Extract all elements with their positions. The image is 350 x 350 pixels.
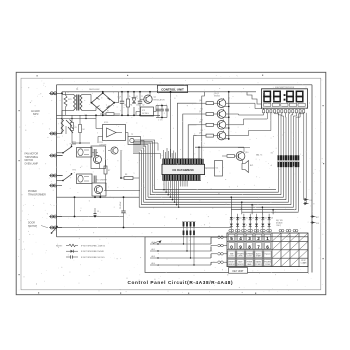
svg-text:MINUTE: MINUTE xyxy=(237,264,243,266)
connector CN-D door sense xyxy=(49,215,62,218)
svg-text:LEVEL: LEVEL xyxy=(238,256,243,258)
key matrix diodes row 1 xyxy=(230,214,274,223)
key matrix grid xyxy=(227,233,308,267)
wire buzzer rail xyxy=(195,146,244,148)
wire strobe entry arrow xyxy=(158,240,162,243)
IC1 bottom pins xyxy=(163,175,202,181)
resistor R3 xyxy=(71,115,77,143)
svg-text:KEY UNIT: KEY UNIT xyxy=(233,270,245,273)
transistor Q4 relay driver xyxy=(92,180,107,198)
svg-text:IC4: IC4 xyxy=(216,168,219,170)
svg-text:60Hz: 60Hz xyxy=(33,113,39,116)
resistor array RA1 xyxy=(278,155,300,160)
svg-text:R7: R7 xyxy=(108,170,110,172)
svg-text:Q10: Q10 xyxy=(245,152,248,154)
svg-text:8: 8 xyxy=(248,245,251,250)
wire T1 primary feeds xyxy=(62,94,74,96)
wire lower rail xyxy=(57,114,161,116)
wire Q6 emitter xyxy=(223,98,225,100)
svg-text:R5: R5 xyxy=(107,110,109,112)
svg-text:D24: D24 xyxy=(258,217,261,219)
wire T1 secondary feeds xyxy=(82,94,91,96)
svg-text:IC2-1: IC2-1 xyxy=(104,122,108,124)
svg-text:MAL 7.3: MAL 7.3 xyxy=(256,154,262,157)
wire Q8 emitter xyxy=(223,120,225,122)
svg-text:D22: D22 xyxy=(245,217,248,219)
wire sense rail xyxy=(57,115,97,120)
diode D17 xyxy=(311,215,320,219)
svg-text:TIME: TIME xyxy=(230,253,234,255)
svg-text:FRESH: FRESH xyxy=(247,262,253,264)
svg-text:TURNTABLE: TURNTABLE xyxy=(25,156,39,159)
note legend xyxy=(56,244,106,259)
varistor RV1 xyxy=(64,92,71,116)
resistor R11 base xyxy=(197,100,214,105)
capacitor C8 xyxy=(120,197,126,228)
wire segment IC1 bottom harness xyxy=(163,181,187,208)
svg-text:C9: C9 xyxy=(97,211,99,213)
transistor Q8 digit driver xyxy=(214,120,229,130)
svg-text:ONLY): ONLY) xyxy=(276,225,281,227)
capacitor C6 xyxy=(93,149,95,156)
svg-text:NOTE:: NOTE: xyxy=(56,245,63,247)
resistor R14 base xyxy=(197,132,214,137)
svg-text:C8 470uF: C8 470uF xyxy=(120,202,122,209)
svg-text:0: 0 xyxy=(230,245,233,250)
svg-text:RV1: RV1 xyxy=(68,99,71,101)
transistor Q7 digit driver xyxy=(214,109,229,118)
svg-text:R43: R43 xyxy=(201,130,204,132)
key switch STOP CLEAR xyxy=(301,260,307,265)
label CONTROL UNIT xyxy=(158,85,188,92)
wire buzzer feed xyxy=(243,148,245,153)
wire scan rails xyxy=(139,190,298,213)
svg-text:Q1: Q1 xyxy=(154,97,156,99)
svg-text:(R-4A38: (R-4A38 xyxy=(276,222,282,225)
connector CN-D door sense 2 xyxy=(49,226,62,229)
resistor R15 xyxy=(227,155,235,158)
IC IX1 controller xyxy=(162,164,205,174)
capacitor C9 xyxy=(94,208,100,217)
wire key row lines xyxy=(150,237,211,265)
display digit 3 xyxy=(287,91,293,101)
svg-text:Q6: Q6 xyxy=(199,100,201,102)
resistor R8 xyxy=(121,174,139,179)
wire key strobe drops xyxy=(231,196,274,214)
wire VCC feed to IC1 xyxy=(170,91,172,157)
svg-text:D18: D18 xyxy=(316,223,319,225)
wire DB1 right node xyxy=(114,102,118,104)
diode D16 xyxy=(304,202,309,205)
svg-text:1k: 1k xyxy=(129,96,131,98)
resistor R13 base xyxy=(197,122,214,127)
svg-text:IX1 DA74HM0218: IX1 DA74HM0218 xyxy=(172,168,194,172)
connector CN-B oven lamp xyxy=(49,174,62,177)
wire driver outputs to ground rail xyxy=(57,196,142,198)
wire DB1 + output xyxy=(102,92,104,93)
control unit boundary box xyxy=(57,85,313,273)
connector CN-C power transformer xyxy=(49,184,62,187)
svg-text:C: 16V: C: 16V xyxy=(158,120,163,122)
wire IC2 input xyxy=(96,128,103,130)
svg-text:D21: D21 xyxy=(239,217,242,219)
capacitor C7 xyxy=(93,176,95,183)
relay contact RY1 xyxy=(57,142,77,156)
connector CN-A AC line 2 xyxy=(49,132,62,135)
svg-text:D15: D15 xyxy=(310,200,313,202)
wire RY1 to edge xyxy=(57,155,64,157)
label AC120V 60Hz xyxy=(31,110,40,116)
wire IC1 top left feeds xyxy=(133,142,176,159)
resistor R12 base xyxy=(197,111,214,116)
pulse transformer T2 xyxy=(126,133,145,148)
svg-text:5V REG: 5V REG xyxy=(142,113,149,115)
svg-text:DRIVER: DRIVER xyxy=(100,145,107,147)
wire interlock node xyxy=(104,150,140,191)
svg-text:DEFROST: DEFROST xyxy=(228,264,236,266)
svg-text:D20: D20 xyxy=(233,217,236,219)
wire divider junction xyxy=(72,137,90,144)
key matrix diodes row 2 xyxy=(230,223,271,229)
svg-text:R4: R4 xyxy=(83,129,85,131)
IC3 power supply xyxy=(136,107,154,116)
transistor Q10 buzzer driver xyxy=(222,148,262,173)
wire door sense 1 xyxy=(57,197,124,217)
transistor Q6 digit driver xyxy=(214,98,229,107)
label KEY UNIT xyxy=(229,268,248,274)
svg-text:OVEN LAMP: OVEN LAMP xyxy=(25,162,39,165)
wire CN-F to key rows xyxy=(153,235,195,266)
wire IC3 input xyxy=(136,111,141,113)
svg-text:R41: R41 xyxy=(201,109,204,111)
wire segment bundle to rails xyxy=(279,167,299,212)
key switch function rows xyxy=(228,251,272,266)
svg-text:ZC: ZC xyxy=(143,151,145,153)
IC4 reset xyxy=(205,161,223,177)
wire ground return rail xyxy=(57,196,140,198)
svg-text:D26: D26 xyxy=(270,217,273,219)
svg-text:Q7: Q7 xyxy=(199,111,201,113)
display LED1 body xyxy=(262,89,308,108)
svg-text:7: 7 xyxy=(257,245,260,250)
svg-text:3: 3 xyxy=(248,236,251,241)
connector CN-F 4pin xyxy=(182,222,196,236)
svg-text:6: 6 xyxy=(266,245,269,250)
display annunciators xyxy=(264,103,306,106)
label DOOR SWITCH xyxy=(28,223,48,228)
label POWER TRANSFORMER xyxy=(28,191,46,196)
svg-text:BZ1: BZ1 xyxy=(250,165,253,167)
resistor R5 xyxy=(100,110,120,115)
key matrix unused cells hatch xyxy=(273,234,308,266)
transistor Q5 xyxy=(108,147,118,154)
svg-text:T2: T2 xyxy=(131,134,133,136)
switch door interlock blade xyxy=(51,226,58,234)
transistor Q1 regulator xyxy=(140,91,165,104)
wire display harness xyxy=(262,109,304,156)
capacitor C2 xyxy=(137,91,145,116)
svg-text:FROZEN: FROZEN xyxy=(264,262,271,264)
wire Q7 emitter xyxy=(223,109,225,111)
svg-text:x9: x9 xyxy=(271,165,273,167)
diode D1 xyxy=(66,120,72,135)
key switch digits row xyxy=(228,234,270,249)
svg-text:CONTROL UNIT: CONTROL UNIT xyxy=(161,88,184,92)
wire Q9 emitter xyxy=(223,130,225,132)
svg-text:POWER: POWER xyxy=(28,191,37,193)
svg-text:ZD1: ZD1 xyxy=(136,105,139,107)
svg-text:1: 1 xyxy=(266,236,269,241)
svg-text:FAN MOTOR: FAN MOTOR xyxy=(25,153,39,156)
svg-text:WEIGHT: WEIGHT xyxy=(228,262,234,264)
wire supply node xyxy=(154,105,168,119)
connector CN-E key rows xyxy=(211,236,227,264)
svg-text:RY1: RY1 xyxy=(73,142,76,144)
svg-text:2: 2 xyxy=(257,236,260,241)
svg-text:IC3: IC3 xyxy=(142,110,145,112)
line filter L1 xyxy=(58,118,64,139)
wire digit select lines to display xyxy=(226,92,262,136)
svg-text:L1: L1 xyxy=(58,137,60,139)
connector CN-B fan motor xyxy=(49,154,62,157)
IC1 top pins xyxy=(163,159,204,165)
svg-text:R42: R42 xyxy=(201,119,204,121)
svg-text:EXPRESS: EXPRESS xyxy=(246,253,254,255)
svg-text:R1: R1 xyxy=(130,105,132,107)
wire segment IC1 left harness xyxy=(133,140,155,207)
display digit 1 xyxy=(264,91,270,101)
wire display return 2 xyxy=(304,113,307,204)
svg-text:Q9: Q9 xyxy=(199,132,201,134)
key unit boundary box xyxy=(145,237,308,273)
wire DB1 AC node xyxy=(90,95,92,103)
resistor R4 xyxy=(79,115,85,143)
capacitor C1 xyxy=(119,91,127,116)
svg-text:5: 5 xyxy=(230,236,233,241)
svg-text:C1: C1 xyxy=(124,105,126,107)
svg-text:DOOR: DOOR xyxy=(28,223,35,225)
display pin header xyxy=(263,110,305,113)
capacitor C5 xyxy=(165,103,169,117)
op-amp IC2 zero cross detector xyxy=(95,114,125,143)
relay coil RY2 xyxy=(77,174,97,184)
svg-text:Q2-Q5: Q2-Q5 xyxy=(214,93,219,95)
title Control Panel Circuit xyxy=(128,280,234,285)
svg-text:33k: 33k xyxy=(271,153,274,155)
wire AC neutral drop xyxy=(61,92,63,134)
wire common emitter bus xyxy=(225,91,230,140)
svg-text:IF NOT SPECIFIED 1N4148: IF NOT SPECIFIED 1N4148 xyxy=(81,251,104,253)
relay coil RY1 xyxy=(77,148,99,158)
svg-text:TRANSFORMER: TRANSFORMER xyxy=(28,193,46,196)
wire segment drive fan to IC1 xyxy=(177,92,244,159)
svg-text:D25: D25 xyxy=(264,217,267,219)
svg-text:R8: R8 xyxy=(125,174,127,176)
bridge rectifier DB1 xyxy=(89,89,119,116)
wire display return 1 xyxy=(303,113,305,200)
display colon xyxy=(284,94,286,101)
zener diode ZD1 xyxy=(132,91,139,116)
relay contact RY2 xyxy=(57,170,76,182)
svg-text:IF NOT SPECIFIED 50V 10%: IF NOT SPECIFIED 50V 10% xyxy=(81,257,105,259)
svg-text:10uF: 10uF xyxy=(118,97,122,99)
svg-text:MOTOR: MOTOR xyxy=(25,160,34,162)
transformer T1 xyxy=(62,89,91,115)
svg-text:5.6V: 5.6V xyxy=(135,96,138,98)
svg-text:Control Panel Circuit(R-4A38/R: Control Panel Circuit(R-4A38/R-4A48) xyxy=(128,280,234,285)
diode D18 xyxy=(311,221,320,225)
resistor R1 xyxy=(126,91,132,116)
svg-text:C2: C2 xyxy=(141,96,143,98)
svg-text:DB-1N 4002: DB-1N 4002 xyxy=(89,89,99,91)
svg-text:IF NOT SPECIFIED, 1/4W 5%: IF NOT SPECIFIED, 1/4W 5% xyxy=(81,245,106,247)
transistor Q9 digit driver xyxy=(214,130,229,140)
svg-text:4: 4 xyxy=(239,236,242,241)
display digit 2 xyxy=(274,91,280,101)
diode D2 xyxy=(68,127,74,134)
resistor array RA2 xyxy=(277,161,300,167)
connector key columns xyxy=(229,229,298,234)
svg-text:Popcorn: Popcorn xyxy=(265,253,271,255)
svg-text:D23: D23 xyxy=(252,217,255,219)
transistor Q3 relay driver xyxy=(91,142,107,169)
svg-text:C2: C2 xyxy=(142,105,144,107)
display digit 4 xyxy=(296,91,302,101)
wire door sense 2 xyxy=(57,217,232,228)
svg-text:RY2: RY2 xyxy=(73,170,76,172)
svg-text:REGULATOR: REGULATOR xyxy=(154,98,166,101)
buzzer BZ1 xyxy=(242,161,249,173)
capacitor C3 xyxy=(156,103,160,117)
svg-text:POWER: POWER xyxy=(237,253,244,255)
capacitor C4 xyxy=(160,103,164,117)
wire T2 link xyxy=(126,132,129,134)
svg-text:Q8: Q8 xyxy=(199,122,201,124)
wire Q1 collector xyxy=(149,92,151,96)
wire AC live rail xyxy=(62,91,256,93)
svg-text:9: 9 xyxy=(239,245,242,250)
resistor R7 xyxy=(104,160,110,191)
diode D15 xyxy=(304,198,313,202)
wire DB1 - output xyxy=(102,112,104,115)
label FAN MOTOR TURNTABLE MOTOR OVEN LAMP xyxy=(25,153,39,166)
label KEY SW note xyxy=(276,220,283,227)
connector CN-A AC line 1 xyxy=(49,92,62,95)
svg-text:R3: R3 xyxy=(75,127,77,129)
